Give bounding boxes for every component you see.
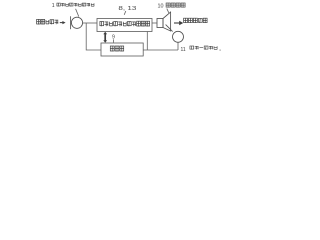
- svg-text:11: 11: [181, 47, 186, 53]
- svg-text:9: 9: [112, 35, 115, 41]
- svg-text:10: 10: [158, 3, 164, 9]
- svg-text:1: 1: [52, 3, 55, 9]
- svg-text:8, 13: 8, 13: [118, 6, 136, 12]
